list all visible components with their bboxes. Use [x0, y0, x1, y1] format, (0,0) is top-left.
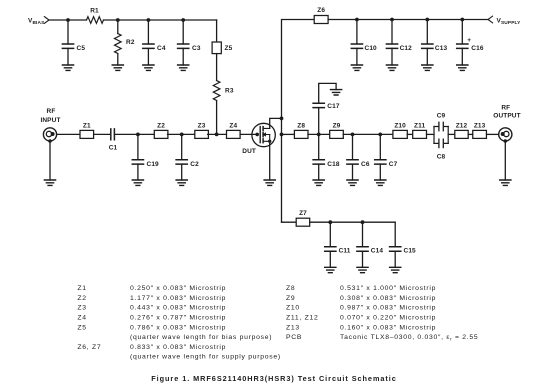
capacitor C6	[347, 160, 370, 168]
svg-text:Z3: Z3	[77, 305, 86, 312]
svg-text:Z8: Z8	[297, 123, 305, 130]
node VSUPPLY	[488, 16, 521, 26]
wire gate lead	[240, 133, 257, 135]
wire	[487, 133, 499, 135]
svg-text:0.250″ x 0.083″ Microstrip: 0.250″ x 0.083″ Microstrip	[130, 285, 226, 292]
svg-text:RF: RF	[501, 104, 510, 111]
wire	[329, 222, 331, 247]
value label Z5	[77, 324, 226, 331]
svg-text:VBIAS: VBIAS	[28, 18, 45, 27]
svg-text:Z11, Z12: Z11, Z12	[286, 315, 318, 322]
wire	[182, 48, 184, 65]
svg-text:R2: R2	[126, 39, 135, 46]
wire	[352, 134, 354, 159]
svg-text:1.177″ x 0.083″ Microstrip: 1.177″ x 0.083″ Microstrip	[130, 295, 226, 302]
svg-text:0.531″ x 1.000″ Microstrip: 0.531″ x 1.000″ Microstrip	[340, 285, 436, 292]
svg-text:C14: C14	[371, 248, 384, 255]
ground	[62, 65, 73, 70]
svg-text:0.833″ x 0.083″ Microstrip: 0.833″ x 0.083″ Microstrip	[130, 344, 226, 351]
wire	[426, 20, 428, 45]
value label Z11 Z12	[286, 315, 436, 322]
ground	[386, 65, 397, 70]
ground	[112, 65, 123, 70]
svg-text:C11: C11	[339, 248, 351, 255]
resistor R1	[87, 7, 104, 23]
value label Z4	[77, 315, 226, 322]
wire	[67, 48, 69, 65]
junction	[280, 117, 284, 121]
svg-text:C1: C1	[109, 145, 118, 152]
capacitor C9	[434, 113, 448, 131]
svg-text:PCB: PCB	[286, 334, 302, 341]
capacitor C5	[62, 44, 85, 52]
resistor R3	[213, 81, 234, 101]
ground	[375, 180, 386, 185]
wire	[216, 101, 218, 135]
junction	[390, 18, 394, 22]
ground	[351, 65, 362, 70]
svg-text:0.308″ x 0.083″ Microstrip: 0.308″ x 0.083″ Microstrip	[340, 295, 436, 302]
node VBIAS	[28, 17, 49, 26]
svg-text:C5: C5	[77, 45, 86, 52]
ground	[331, 90, 342, 95]
capacitor C7	[375, 160, 398, 168]
value label Z3	[77, 305, 226, 312]
wire	[379, 134, 381, 159]
ground	[422, 65, 433, 70]
svg-text:C12: C12	[400, 45, 413, 52]
svg-text:0.987″ x 0.083″ Microstrip: 0.987″ x 0.083″ Microstrip	[340, 305, 436, 312]
wire	[318, 164, 320, 180]
wire	[448, 133, 455, 135]
svg-text:C16: C16	[471, 45, 484, 52]
svg-text:C19: C19	[147, 161, 160, 168]
svg-text:RF: RF	[47, 108, 56, 115]
svg-text:INPUT: INPUT	[40, 117, 60, 124]
svg-text:Z4: Z4	[229, 123, 237, 130]
value label Z2	[77, 295, 226, 302]
wire source lead	[269, 141, 271, 180]
svg-text:0.786″ x 0.083″ Microstrip: 0.786″ x 0.083″ Microstrip	[130, 324, 226, 331]
svg-text:Z1: Z1	[77, 285, 86, 292]
capacitor C2	[176, 160, 199, 168]
microstrip Z9	[330, 123, 344, 139]
svg-text:DUT: DUT	[242, 148, 256, 155]
ground	[143, 65, 154, 70]
wire	[461, 48, 463, 65]
svg-text:R1: R1	[90, 7, 99, 14]
svg-text:Z7: Z7	[299, 210, 307, 217]
microstrip Z5	[212, 42, 232, 54]
microstrip Z8	[294, 123, 308, 139]
svg-text:Z8: Z8	[286, 285, 295, 292]
svg-text:Z6, Z7: Z6, Z7	[77, 344, 101, 351]
junction	[355, 18, 359, 22]
svg-text:Z5: Z5	[225, 45, 233, 52]
junction	[215, 133, 219, 137]
svg-text:0.276″ x 0.787″ Microstrip: 0.276″ x 0.787″ Microstrip	[130, 315, 226, 322]
wire	[461, 20, 463, 45]
ground	[390, 267, 401, 272]
svg-text:C13: C13	[435, 45, 448, 52]
ground	[500, 180, 511, 185]
svg-text:Z10: Z10	[286, 305, 300, 312]
wire	[356, 48, 358, 65]
microstrip Z13	[473, 123, 487, 139]
wire	[310, 221, 396, 223]
svg-text:(quarter wave length for suppl: (quarter wave length for supply purpose)	[130, 354, 281, 361]
connector J2 RF output	[499, 128, 512, 143]
svg-text:Z13: Z13	[286, 324, 300, 331]
microstrip Z10	[393, 123, 407, 139]
junction	[181, 18, 185, 22]
svg-text:(quarter wave length for bias: (quarter wave length for bias purpose)	[130, 334, 272, 341]
wire	[504, 141, 506, 180]
wire	[427, 133, 435, 135]
ground	[178, 65, 189, 70]
value label Z1	[77, 285, 226, 292]
wire	[208, 133, 228, 135]
junction	[280, 133, 284, 137]
capacitor C11	[325, 247, 351, 255]
capacitor C10	[351, 44, 377, 52]
junction	[136, 133, 140, 137]
wire	[147, 20, 149, 44]
wire	[147, 48, 149, 65]
value label Z10	[286, 305, 436, 312]
ground	[347, 180, 358, 185]
wire drain rail	[282, 20, 315, 223]
wire	[49, 141, 51, 180]
svg-text:C17: C17	[327, 103, 340, 110]
svg-text:Z11: Z11	[414, 123, 425, 130]
svg-text:C9: C9	[437, 113, 446, 120]
value label Z8	[286, 285, 436, 292]
svg-text:Z9: Z9	[286, 295, 295, 302]
wire supply rail	[328, 19, 488, 21]
wire	[319, 83, 336, 103]
capacitor C3	[178, 44, 201, 52]
wire	[362, 251, 364, 267]
capacitor C17	[313, 103, 340, 110]
svg-text:Z6: Z6	[317, 7, 325, 14]
junction	[116, 18, 120, 22]
wire	[407, 133, 412, 135]
wire	[343, 133, 393, 135]
svg-text:C2: C2	[190, 161, 199, 168]
connector J1 RF input	[43, 128, 56, 143]
junction	[180, 133, 184, 137]
wire	[114, 133, 154, 135]
svg-text:C6: C6	[361, 161, 370, 168]
transistor DUT (LDMOS FET)	[242, 123, 275, 155]
capacitor C16	[457, 37, 484, 52]
microstrip Z1	[80, 123, 94, 139]
microstrip Z4	[227, 123, 241, 139]
svg-text:Figure 1. MRF6S21140HR3(HSR3): Figure 1. MRF6S21140HR3(HSR3) Test Circu…	[151, 374, 397, 383]
wire	[216, 54, 218, 81]
ground	[132, 180, 143, 185]
value label Z9	[286, 295, 436, 302]
note supply purpose	[130, 354, 281, 361]
junction	[66, 18, 70, 22]
svg-text:Z4: Z4	[77, 315, 86, 322]
wire bias rail	[49, 19, 217, 21]
svg-text:C3: C3	[192, 45, 201, 52]
wire	[318, 108, 320, 135]
node RF INPUT	[40, 108, 60, 124]
svg-text:Taconic TLX8–0300, 0.030″, εr: Taconic TLX8–0300, 0.030″, εr = 2.55	[340, 334, 478, 341]
capacitor C18	[313, 160, 340, 168]
svg-text:Z5: Z5	[77, 324, 86, 331]
svg-text:0.070″ x 0.220″ Microstrip: 0.070″ x 0.220″ Microstrip	[340, 315, 436, 322]
wire	[181, 134, 183, 159]
wire drain lead	[270, 118, 282, 128]
wire	[434, 127, 448, 144]
wire	[282, 133, 295, 135]
junction	[328, 220, 332, 224]
svg-text:C10: C10	[365, 45, 378, 52]
svg-text:Z3: Z3	[198, 123, 206, 130]
ground	[325, 267, 336, 272]
junction	[317, 133, 321, 137]
ground	[313, 180, 324, 185]
ground	[176, 180, 187, 185]
microstrip Z7	[296, 210, 310, 226]
capacitor C12	[386, 44, 412, 52]
note bias purpose	[130, 334, 272, 341]
junction	[425, 18, 429, 22]
wire	[356, 20, 358, 45]
svg-text:0.160″ x 0.083″ Microstrip: 0.160″ x 0.083″ Microstrip	[340, 324, 436, 331]
wire	[394, 251, 396, 267]
svg-text:VSUPPLY: VSUPPLY	[497, 18, 522, 27]
capacitor C13	[422, 44, 448, 52]
capacitor C15	[390, 247, 416, 255]
wire	[391, 48, 393, 65]
wire	[216, 20, 218, 42]
resistor R2	[115, 20, 135, 65]
svg-text:0.443″ x 0.083″ Microstrip: 0.443″ x 0.083″ Microstrip	[130, 305, 226, 312]
node RF OUTPUT	[493, 104, 520, 119]
svg-text:+: +	[467, 37, 471, 44]
capacitor C8	[434, 139, 448, 160]
ground	[264, 180, 275, 185]
junction	[378, 133, 382, 137]
microstrip Z3	[195, 123, 209, 139]
wire	[318, 134, 320, 159]
wire	[391, 20, 393, 45]
svg-text:R3: R3	[225, 88, 234, 95]
wire	[181, 164, 183, 180]
svg-text:C8: C8	[437, 154, 446, 161]
wire	[137, 134, 139, 159]
wire	[329, 251, 331, 267]
value label PCB	[286, 334, 478, 341]
ground	[44, 180, 55, 185]
capacitor C1	[109, 129, 118, 152]
capacitor C14	[357, 247, 383, 255]
svg-text:Z9: Z9	[333, 123, 341, 130]
junction	[351, 133, 355, 137]
svg-text:C18: C18	[327, 161, 340, 168]
capacitor C19	[132, 160, 159, 168]
value label Z13	[286, 324, 436, 331]
wire	[168, 133, 196, 135]
svg-text:Z10: Z10	[394, 123, 406, 130]
svg-text:C7: C7	[389, 161, 398, 168]
svg-text:Z1: Z1	[83, 123, 91, 130]
wire	[57, 133, 80, 135]
wire	[379, 164, 381, 180]
microstrip Z2	[154, 123, 168, 139]
wire	[67, 20, 69, 44]
microstrip Z12	[455, 123, 468, 139]
wire	[362, 222, 364, 247]
wire	[426, 48, 428, 65]
svg-text:C4: C4	[157, 45, 166, 52]
wire	[308, 133, 330, 135]
wire	[468, 133, 473, 135]
svg-text:Z12: Z12	[456, 123, 468, 130]
junction	[361, 220, 365, 224]
ground	[357, 267, 368, 272]
svg-text:Z13: Z13	[474, 123, 486, 130]
capacitor C4	[143, 44, 166, 52]
svg-text:Z2: Z2	[157, 123, 165, 130]
value label Z6 Z7	[77, 344, 226, 351]
wire	[282, 221, 297, 223]
svg-text:Z2: Z2	[77, 295, 86, 302]
ground	[457, 65, 468, 70]
svg-text:C15: C15	[404, 248, 417, 255]
microstrip Z11	[413, 123, 427, 139]
svg-text:OUTPUT: OUTPUT	[493, 113, 520, 120]
wire	[94, 133, 111, 135]
microstrip Z6	[314, 7, 328, 23]
junction	[147, 18, 151, 22]
wire	[394, 222, 396, 247]
wire	[352, 164, 354, 180]
wire	[137, 164, 139, 180]
wire	[182, 20, 184, 44]
junction	[460, 18, 464, 22]
